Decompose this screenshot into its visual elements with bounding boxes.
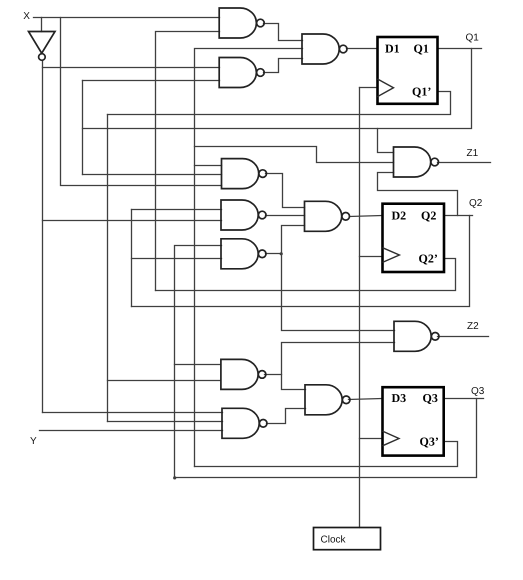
nand gate Z2 <box>394 321 431 351</box>
inverter U2 <box>29 32 56 54</box>
wire Q1 elbow to Z1 input <box>378 129 394 153</box>
wire Q1 output <box>438 48 482 50</box>
wire Q2 branch to G5 input <box>132 258 222 260</box>
wire X branch vertical to G3 <box>61 18 222 186</box>
wire X' vertical trunk <box>42 61 44 413</box>
wire X' branch to G7 input <box>43 412 223 414</box>
wire G2 output elbow to U3 <box>264 59 303 73</box>
wire Q2 vertical x132 <box>131 210 133 307</box>
nand gate G4 <box>221 200 258 230</box>
flip-flop U1 box D1 <box>378 37 438 104</box>
wire X' branch to G4 input <box>43 220 222 222</box>
wire inverter input stub <box>41 18 43 32</box>
wire G4 output to U4 <box>266 215 305 217</box>
wire G1 output elbow to U3 <box>264 24 303 41</box>
wire Q3 feedback bus <box>175 399 477 478</box>
nand gate Z1 <box>394 147 431 177</box>
wire U4 output to D2 <box>350 216 383 217</box>
nand gate U4 <box>305 201 342 231</box>
wire Q3 output <box>444 398 484 400</box>
svg-text:Q2’: Q2’ <box>419 252 438 266</box>
nand gate G3 <box>222 159 259 189</box>
wire Z1 output <box>438 162 491 164</box>
wire Y input to G7 <box>40 430 223 432</box>
wire Q3 branch to G6 input <box>175 364 221 366</box>
wire Q3' branch to G3 input <box>195 165 222 167</box>
wire Q1' branch to G6 input <box>108 380 221 382</box>
svg-text:X: X <box>23 11 30 22</box>
svg-text:Q1: Q1 <box>414 42 429 56</box>
flip-flop U6 box D2 <box>383 204 445 272</box>
wire Q2' return bus <box>156 259 456 291</box>
svg-text:Q3: Q3 <box>423 391 438 405</box>
wire Q1 to G2 input <box>83 80 220 82</box>
wire clock to FF3 <box>360 438 383 440</box>
wire U5 output to D3 <box>349 399 383 400</box>
wire Q1' vertical x107 <box>107 115 109 422</box>
flip-flop U1 clock triangle <box>378 79 394 97</box>
svg-text:Q3’: Q3’ <box>420 435 439 449</box>
svg-text:D2: D2 <box>392 209 407 223</box>
wire G6 output stub <box>265 374 282 376</box>
wire Q3' return bus <box>195 442 458 467</box>
svg-text:D3: D3 <box>392 391 407 405</box>
svg-text:D1: D1 <box>385 42 400 56</box>
wire G6 out vertical to Z2 and U5 <box>282 343 395 390</box>
svg-text:Q3: Q3 <box>471 386 485 397</box>
nand gate U5 <box>305 385 342 415</box>
wire Q2 to G4 input <box>132 209 222 211</box>
wire G5 out vertical to U4 and Z2 <box>282 226 395 331</box>
svg-text:Z2: Z2 <box>467 321 479 332</box>
wire X' to G2 input <box>43 67 220 69</box>
wire Z1 input elbow from Q2 <box>378 173 458 216</box>
wire U3 output to D1 <box>347 48 378 50</box>
wire Q2' vertical x155 to G1 input <box>156 32 220 291</box>
wire G5 output stub <box>266 253 282 255</box>
nand gate G2 <box>219 58 256 88</box>
wire Q1 to G3 input <box>83 174 222 176</box>
wire G3 output elbow to U4 <box>266 174 305 208</box>
junction G5 output <box>280 252 283 255</box>
svg-text:Q2: Q2 <box>421 209 436 223</box>
svg-text:Y: Y <box>30 436 37 447</box>
nand gate U3 <box>302 34 339 64</box>
wire Q3' branch to Z1 input <box>195 147 394 163</box>
wire Q1' to G7 input <box>108 421 223 423</box>
svg-text:Q2: Q2 <box>469 198 483 209</box>
wire Q2 output <box>445 215 473 217</box>
wire clock vertical trunk <box>359 88 361 528</box>
svg-text:Clock: Clock <box>321 535 347 546</box>
wire Z2 output <box>438 336 489 338</box>
clock source box <box>314 528 381 550</box>
svg-text:Q1’: Q1’ <box>412 85 431 99</box>
wire clock to FF1 <box>360 87 378 89</box>
wire clock to FF2 <box>360 256 383 258</box>
wire X input horizontal <box>34 17 220 19</box>
flip-flop U6 clock triangle <box>383 248 400 263</box>
junction Q3 bus corner dot <box>173 476 176 479</box>
nand gate G5 <box>221 239 258 269</box>
wire Q1' return bus <box>108 92 451 115</box>
wire Q1 feedback bus <box>83 49 472 129</box>
wire G7 output elbow to U5 <box>267 409 306 424</box>
svg-text:Q1: Q1 <box>466 33 480 44</box>
nand gate G6 <box>221 359 258 389</box>
flip-flop U7 box D3 <box>383 387 444 455</box>
wire Q1 net vertical x86 <box>82 81 84 175</box>
wire Q3 vertical x175 to G5 input <box>175 246 222 478</box>
svg-text:Z1: Z1 <box>467 148 479 159</box>
nand gate G7 <box>222 408 259 438</box>
nand gate G1 <box>219 8 256 38</box>
wire Q2 feedback bus <box>132 216 470 307</box>
flip-flop U7 clock triangle <box>383 431 400 446</box>
wire Q3' vertical x195 to U3 input <box>195 49 303 467</box>
